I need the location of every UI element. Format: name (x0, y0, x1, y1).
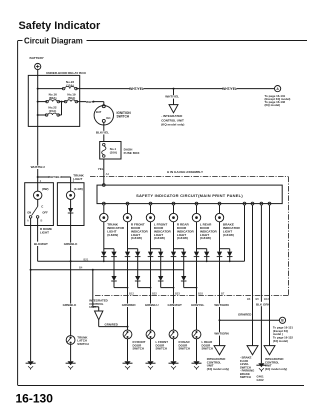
svg-text:WHT/BLU: WHT/BLU (48, 175, 62, 179)
wire R-front lamp down (127, 222, 129, 252)
svg-text:IG1: IG1 (106, 116, 111, 120)
integrated control unit arrow (right, KQ) (264, 346, 275, 355)
ground (147, 361, 153, 365)
svg-text:16-130: 16-130 (16, 392, 54, 406)
wire L front door switch to ground (150, 339, 152, 362)
R front door switch (123, 330, 132, 339)
wire R rear door switch to ground (173, 339, 175, 362)
trunk latch switch (66, 336, 75, 345)
svg-text:GRN/BLK: GRN/BLK (63, 303, 77, 307)
svg-text:GRN/WHT: GRN/WHT (168, 303, 182, 307)
ignition switch (102, 105, 105, 108)
wire trunk latch switch to ground (70, 344, 72, 361)
wire GRN/RED from ICU to R front door switch wire (98, 320, 100, 327)
svg-text:B5: B5 (256, 297, 260, 301)
svg-text:BATTERY: BATTERY (30, 56, 45, 60)
svg-text:LIGHT: LIGHT (73, 177, 82, 181)
svg-text:SWITCH: SWITCH (156, 347, 167, 351)
svg-text:WHT/YEL: WHT/YEL (129, 87, 144, 91)
svg-text:(15A): (15A) (49, 109, 57, 113)
diode trunk light (68, 208, 73, 213)
svg-text:GRN/BLK: GRN/BLK (64, 242, 78, 246)
svg-text:WHT: WHT (86, 100, 93, 104)
svg-text:YEL: YEL (98, 167, 104, 171)
wire diode row2 output to next column (161, 287, 174, 289)
wire GRN/RED to R front door switch (127, 256, 129, 330)
svg-text:LIGHT: LIGHT (40, 230, 49, 234)
bus 2 (row-2 diode anodes) (31, 269, 184, 271)
diode row2 (113, 256, 115, 276)
svg-text:ON: ON (27, 211, 31, 215)
svg-text:Safety Indicator: Safety Indicator (19, 20, 101, 32)
svg-text:H IN GAUGE ASSEMBLY: H IN GAUGE ASSEMBLY (167, 170, 204, 174)
wire L-front lamp down (150, 222, 152, 252)
safety indicator circuit box (97, 185, 282, 204)
diode pair brake (220, 248, 230, 250)
wire GRN/YEL to L rear door switch (196, 256, 198, 330)
svg-text:(10A): (10A) (110, 150, 117, 154)
node GRN/BLK joins bus1 (70, 260, 72, 262)
trunk indicator light (103, 205, 105, 213)
node WHT/BLU junction (37, 176, 39, 178)
wire diode row2 output to next column (114, 287, 128, 289)
ground (124, 361, 130, 365)
svg-text:B4: B4 (79, 266, 83, 270)
svg-text:A: A (27, 220, 29, 223)
svg-text:B12: B12 (129, 291, 134, 295)
L-front indicator light (150, 205, 152, 213)
svg-text:B23: B23 (175, 291, 180, 295)
R rear door switch (169, 330, 178, 339)
svg-text:FUSE BOX: FUSE BOX (124, 151, 141, 155)
node brake branch (219, 319, 221, 321)
brake fluid level / parking brake switch arrow (247, 346, 258, 355)
node WHT/YEL branch (173, 88, 175, 90)
svg-text:UNIT: UNIT (89, 305, 96, 309)
svg-text:A4: A4 (106, 172, 110, 176)
wire GRN/BLU to L front door switch (150, 256, 152, 330)
svg-text:B: B (41, 220, 43, 223)
svg-text:B7: B7 (221, 291, 225, 295)
svg-text:(80A): (80A) (49, 96, 57, 100)
svg-text:GRN/YEL: GRN/YEL (191, 303, 205, 307)
svg-text:(0.84W): (0.84W) (177, 236, 188, 240)
svg-text:BAT: BAT (96, 110, 102, 114)
svg-text:(0.84W): (0.84W) (107, 233, 118, 237)
svg-text:SWITCH: SWITCH (179, 347, 190, 351)
svg-text:(KQ model): (KQ model) (273, 339, 288, 343)
svg-text:(3.4W): (3.4W) (74, 187, 83, 191)
wire trunk lamp down (103, 222, 105, 252)
diode pair R-rear (174, 248, 184, 250)
wire brake lamp down (219, 222, 221, 252)
wire GRN/WHT to R rear door switch (173, 256, 175, 330)
box output pins (102, 202, 105, 205)
wire R front door switch to ground (127, 339, 129, 362)
svg-text:WHT/GRN: WHT/GRN (214, 303, 228, 307)
svg-text:WHT/GRN: WHT/GRN (214, 332, 228, 336)
svg-text:Circuit Diagram: Circuit Diagram (24, 36, 83, 45)
svg-text:B13: B13 (264, 297, 269, 301)
svg-text:SWITCH: SWITCH (117, 115, 130, 119)
svg-text:(0.84W): (0.84W) (200, 236, 211, 240)
svg-text:GRN/RED: GRN/RED (122, 303, 137, 307)
bus from diode row 1 (dome/trunk feed) (38, 260, 245, 262)
svg-text:WHT/BLU: WHT/BLU (31, 165, 46, 169)
svg-text:GRN/RED: GRN/RED (105, 322, 118, 326)
L front door switch (146, 330, 155, 339)
diode row2 (160, 256, 162, 276)
svg-text:G402: G402 (257, 378, 264, 382)
svg-text:SAFETY INDICATOR CIRCUIT(MAI: SAFETY INDICATOR CIRCUIT(MAIN PRINT PANE… (136, 193, 243, 198)
wire WHT/YEL from No.23 to page ref A (80, 88, 275, 90)
ground (68, 361, 74, 365)
wire GRN/RED to page ref B (220, 319, 280, 321)
diode pair L-rear (197, 248, 207, 250)
R-rear indicator light (173, 205, 175, 213)
node fuse junction (61, 101, 63, 103)
integrated control unit arrow (brake, KQ) (214, 346, 225, 355)
ground (193, 361, 199, 365)
svg-text:SWITCH: SWITCH (240, 375, 251, 379)
connector A to page 16-131 (275, 86, 281, 92)
svg-text:(8W): (8W) (42, 187, 49, 191)
dome light switch lever (32, 206, 38, 215)
wire GRN/RED to brake fluid / parking brake switches (252, 205, 254, 346)
svg-text:(50A): (50A) (68, 96, 76, 100)
wire battery to relay box (37, 70, 39, 76)
wire R-rear lamp down (173, 222, 175, 252)
wire diode row2 output to next column (138, 287, 151, 289)
wire WHT/BLU to trunk light (38, 176, 71, 178)
wire BLK to ground (260, 205, 262, 363)
diode row2 (183, 256, 185, 276)
svg-text:SWITCH: SWITCH (133, 347, 144, 351)
svg-text:(0.84W): (0.84W) (131, 236, 142, 240)
connector B to page 16-131 (279, 317, 285, 323)
brake indicator light (219, 205, 221, 213)
diode pair L-front (151, 248, 161, 250)
svg-text:(KQ model only): (KQ model only) (207, 367, 229, 371)
svg-text:WHT/YEL: WHT/YEL (222, 87, 237, 91)
wire WHT/BLU relay box to dome light (37, 126, 39, 182)
diode row2 (137, 256, 139, 276)
wire L-rear lamp down (196, 222, 198, 252)
svg-text:B18: B18 (198, 291, 203, 295)
svg-text:(KQ model): (KQ model) (265, 103, 281, 107)
diode pair R-front (128, 248, 138, 250)
ground G401 G402 (258, 363, 264, 367)
svg-text:BLK GRN: BLK GRN (256, 302, 270, 306)
svg-text:B22: B22 (152, 291, 157, 295)
wire YEL dash fuse box to gauge assembly (103, 159, 105, 185)
svg-text:BLK/YEL: BLK/YEL (96, 130, 109, 134)
wire BLK/YEL ignition to dash fuse box (103, 122, 105, 141)
node battery bus taps (37, 88, 39, 90)
wire BLK/WHT dome light to ground (30, 218, 32, 361)
svg-text:(0.84W): (0.84W) (223, 233, 234, 237)
L rear door switch (192, 330, 201, 339)
diode pair trunk (104, 248, 114, 250)
svg-text:(0.84W): (0.84W) (154, 236, 165, 240)
wire WHT from No.19 to ignition switch (80, 101, 104, 103)
wire riser bus1 to box pin (244, 205, 246, 261)
section frame: Circuit Diagram (18, 40, 307, 42)
svg-text:WHT/YEL: WHT/YEL (165, 95, 179, 99)
wire WHT/GRN brake column (219, 256, 221, 345)
svg-text:UNDER-HOOD RELAY BOX: UNDER-HOOD RELAY BOX (46, 71, 87, 75)
R-front indicator light (127, 205, 129, 213)
svg-text:GRN/BLU: GRN/BLU (145, 303, 159, 307)
wire fuse junction down (61, 102, 63, 115)
wire battery bus inside relay box (37, 75, 39, 126)
ground (170, 361, 176, 365)
svg-text:B6: B6 (247, 297, 251, 301)
wire WHT/YEL branch down to ICU (173, 89, 175, 105)
ground dome circuit (28, 361, 34, 365)
pin YEL into box (102, 184, 105, 187)
wire L rear door switch to ground (196, 339, 198, 362)
integrated control unit arrow (top) (169, 105, 178, 113)
svg-text:BLK/WHT: BLK/WHT (34, 242, 48, 246)
wire GRN/BLK trunk light to trunk latch switch (70, 226, 72, 336)
wire diode row2 output to next column (184, 287, 197, 289)
svg-text:SWITCH: SWITCH (77, 342, 88, 346)
L-rear indicator light (196, 205, 198, 213)
svg-text:OFF: OFF (42, 211, 48, 215)
svg-text:B21: B21 (84, 257, 89, 261)
svg-text:SWITCH: SWITCH (202, 347, 213, 351)
wire GRN to ICU (KQ) (269, 205, 271, 346)
R dome light (25, 183, 54, 226)
svg-text:(KQ model only): (KQ model only) (161, 122, 184, 126)
wire dome light B to bus1 (37, 218, 39, 261)
svg-text:(KQ model only): (KQ model only) (265, 367, 287, 371)
wire bus2 to integrated control unit (92, 269, 94, 271)
dash fuse box with fuse No.1 10A (100, 142, 121, 160)
svg-text:C: C (41, 204, 43, 208)
svg-text:GRN/RED: GRN/RED (238, 313, 251, 317)
